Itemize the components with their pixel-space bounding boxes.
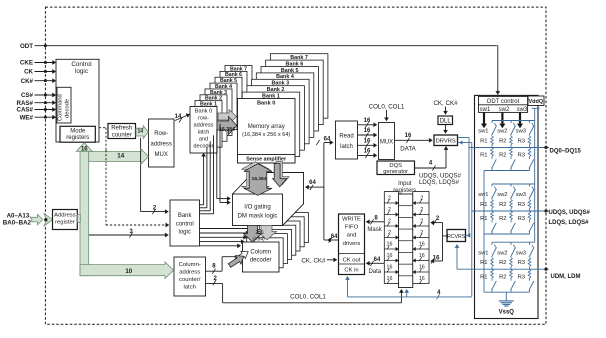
svg-text:UDM, LDM: UDM, LDM [551, 274, 581, 280]
wire ODT to ODT control [497, 46, 499, 92]
memory array bank stack (banks 7..1) [270, 54, 328, 119]
svg-text:and: and [347, 233, 357, 239]
svg-text:and: and [199, 137, 208, 143]
control logic box [56, 59, 99, 142]
svg-text:VssQ: VssQ [499, 309, 515, 315]
command decode box [57, 87, 71, 123]
wire RCVRS to input registers (2) [434, 222, 443, 224]
svg-text:Refresh: Refresh [111, 126, 132, 132]
column decoder front box [243, 242, 280, 272]
svg-text:R1: R1 [480, 153, 487, 159]
svg-text:CK in: CK in [344, 268, 358, 274]
svg-text:COL0, COL1: COL0, COL1 [369, 103, 405, 110]
svg-text:CAS#: CAS# [16, 107, 33, 114]
wire segments crossing green arrow (drawn on top) [140, 151, 142, 162]
svg-text:sw3: sw3 [516, 129, 526, 135]
svg-text:64: 64 [331, 234, 338, 240]
gray diagonal arrow into column decoder (shadow outline) [234, 248, 251, 263]
svg-text:sw3: sw3 [516, 192, 526, 198]
svg-text:register: register [55, 220, 75, 226]
svg-text:sw1: sw1 [478, 250, 488, 256]
svg-text:Command: Command [58, 94, 64, 121]
svg-text:BA0–BA2: BA0–BA2 [3, 219, 32, 226]
svg-text:LDQS, LDQS#: LDQS, LDQS# [419, 179, 460, 186]
gray double arrow 16,384 shadow [241, 162, 269, 194]
sense amplifier strip [238, 155, 296, 164]
blue wire DM pad line to RCVRS [456, 247, 458, 269]
svg-text:16: 16 [364, 128, 371, 134]
svg-text:16: 16 [387, 265, 393, 271]
svg-text:16,384: 16,384 [252, 176, 267, 182]
svg-text:16: 16 [81, 147, 88, 153]
svg-text:registers: registers [66, 135, 89, 141]
svg-text:Input: Input [398, 181, 412, 187]
svg-text:10: 10 [125, 268, 132, 275]
svg-text:sw2: sw2 [497, 192, 507, 198]
svg-text:Mask: Mask [367, 227, 382, 233]
svg-text:64: 64 [374, 257, 381, 263]
svg-text:R3: R3 [518, 260, 525, 266]
VddQ box [528, 96, 544, 106]
svg-text:14: 14 [138, 129, 144, 135]
svg-text:R2: R2 [499, 260, 506, 266]
gray 3d arrow 16,384 latch-to-memory [217, 117, 237, 135]
wire row-address MUX to row-address latch (14) [175, 115, 188, 121]
svg-text:Bank 0: Bank 0 [195, 109, 212, 115]
ODT switch/resistor column 2 [510, 184, 512, 187]
svg-text:VddQ: VddQ [528, 99, 543, 105]
ODT switch/resistor column 2 [510, 242, 512, 245]
svg-text:RCVRS: RCVRS [447, 234, 466, 240]
svg-text:logic: logic [75, 68, 88, 75]
svg-text:sw2: sw2 [497, 250, 507, 256]
svg-text:Control: Control [71, 61, 91, 68]
bank control logic box [170, 200, 200, 246]
svg-text:DLL: DLL [440, 118, 452, 124]
ODT switch/resistor column 2 [510, 121, 512, 124]
svg-text:latch: latch [183, 285, 195, 291]
gray double arrow 16,384 sense-amp to I/O gating [244, 164, 272, 196]
row-address MUX box [149, 119, 175, 167]
svg-text:MUX: MUX [380, 140, 393, 146]
svg-text:16: 16 [387, 242, 393, 248]
svg-text:256: 256 [255, 230, 264, 236]
svg-text:16: 16 [364, 139, 371, 145]
svg-text:CK out: CK out [343, 258, 361, 264]
svg-text:address: address [151, 142, 172, 148]
svg-text:ODT: ODT [20, 43, 33, 50]
svg-text:16: 16 [364, 118, 371, 124]
svg-text:DATA: DATA [400, 145, 416, 152]
svg-text:FIFO: FIFO [345, 224, 359, 230]
svg-text:16: 16 [364, 149, 371, 155]
green wide arrow 10 to column-address counter [80, 262, 174, 279]
I/O gating / DM mask logic 3D box [233, 173, 304, 226]
svg-text:Bank: Bank [178, 213, 193, 219]
dashed control wire from control logic [99, 127, 106, 129]
svg-text:CK#: CK# [21, 78, 34, 85]
DQS generator box [377, 161, 415, 175]
svg-text:sw1: sw1 [480, 107, 491, 113]
refresh counter box [108, 124, 136, 139]
DQ pad line [469, 147, 549, 149]
svg-text:drivers: drivers [343, 241, 361, 247]
wire DQS generator to DRVRS (4) [415, 167, 447, 169]
svg-text:CKE: CKE [20, 60, 33, 67]
ODT switch/resistor column 1 [491, 184, 493, 187]
green arrowhead 16 into mode registers [76, 143, 92, 152]
DLL box [445, 107, 447, 112]
svg-text:Column-: Column- [179, 262, 201, 268]
svg-text:R2: R2 [499, 216, 506, 222]
wire MUX to DRVRS 16 DATA [395, 139, 430, 141]
mode registers box [60, 126, 95, 142]
svg-text:CK, CK#: CK, CK# [433, 100, 458, 107]
ODT control box [479, 96, 528, 112]
outer dashed chip boundary [45, 7, 546, 324]
svg-text:16: 16 [419, 276, 425, 282]
ODT group rails [492, 120, 535, 122]
svg-text:DRVRS: DRVRS [436, 139, 456, 145]
svg-text:ODT control: ODT control [487, 99, 519, 105]
svg-text:WE#: WE# [20, 114, 34, 121]
ODT switch/resistor column 1 [491, 121, 493, 124]
ODT switch/resistor column 3 [529, 121, 531, 124]
svg-text:I/O gating: I/O gating [244, 204, 270, 211]
ODT switch/resistor column 1 [491, 242, 493, 245]
svg-text:LDQS, LDQS#: LDQS, LDQS# [549, 220, 590, 226]
svg-text:Column: Column [250, 250, 271, 256]
small gray arrow down (shadow) [275, 162, 289, 185]
blue net DRVRS to DQ pads and RCVRS [458, 137, 470, 139]
small gray arrow down [273, 164, 287, 187]
ground stem and VssQ symbol [505, 292, 507, 301]
svg-text:16: 16 [419, 265, 425, 271]
gray 3d arrow 16,384 latch-to-memory (shadow) [218, 110, 237, 124]
wire 2 column-address to COL0,COL1 bus [206, 283, 223, 285]
green address bus vertical band [80, 150, 89, 276]
svg-text:sw3: sw3 [517, 107, 528, 113]
svg-text:Mode: Mode [70, 128, 86, 134]
ODT switch/resistor column 3 [529, 242, 531, 245]
svg-text:UDQS, UDQS#: UDQS, UDQS# [549, 210, 591, 216]
left VssQ-side rail link [483, 171, 485, 293]
svg-text:CK, CK#: CK, CK# [301, 257, 326, 264]
DRVRS box [434, 135, 458, 146]
svg-text:(16,384 x 256 x 64): (16,384 x 256 x 64) [242, 132, 290, 138]
read latch box [336, 121, 358, 159]
wire DLL to DRVRS [445, 125, 447, 131]
input registers left capture column [384, 192, 398, 284]
svg-text:(x64): (x64) [253, 236, 265, 242]
svg-text:R3: R3 [518, 202, 525, 208]
svg-text:R2: R2 [499, 153, 506, 159]
wire 64 trunk (read/write data bus) [323, 143, 325, 241]
svg-text:decoder: decoder [250, 258, 272, 264]
svg-text:address: address [179, 270, 200, 276]
green arrow 14 refresh counter to MUX [136, 126, 148, 139]
wire address register to bank control logic (3) [89, 234, 166, 236]
blue net DRVRS DQS to pads and strobe bus [458, 142, 472, 144]
bank select wires to I/O gating [216, 130, 218, 199]
svg-text:sw1: sw1 [478, 192, 488, 198]
svg-text:MUX: MUX [155, 152, 168, 158]
svg-text:R3: R3 [518, 153, 525, 159]
svg-text:generator: generator [383, 169, 408, 175]
MUX box [379, 123, 395, 160]
ODT switch/resistor column 3 [529, 184, 531, 187]
svg-text:DQ0–DQ15: DQ0–DQ15 [550, 149, 582, 155]
svg-text:Address: Address [54, 213, 76, 219]
bold control arrows to switches [483, 113, 485, 124]
DM pad line [457, 268, 549, 270]
svg-text:Row-: Row- [154, 131, 168, 137]
svg-text:R2: R2 [499, 274, 506, 280]
svg-text:16: 16 [419, 242, 425, 248]
bank select wires to column decoders [200, 228, 250, 230]
svg-text:CS#: CS# [21, 92, 34, 99]
svg-text:sw2: sw2 [499, 107, 510, 113]
RCVRS box [443, 235, 448, 237]
svg-text:14: 14 [175, 114, 182, 120]
address register box [53, 210, 78, 230]
svg-text:logic: logic [179, 230, 191, 236]
svg-text:R2: R2 [499, 202, 506, 208]
svg-text:COL0, COL1: COL0, COL1 [290, 293, 326, 300]
COL0,COL1 bottom bus [223, 302, 402, 304]
input registers right capture column [413, 192, 429, 284]
gray diagonal arrow into column decoder [227, 252, 247, 270]
WRITE FIFO and drivers box [339, 214, 365, 275]
svg-text:decode: decode [64, 99, 70, 118]
svg-text:R1: R1 [480, 138, 487, 144]
svg-text:Memory array: Memory array [248, 124, 285, 130]
svg-text:16: 16 [419, 253, 425, 259]
ODT group rails [492, 241, 535, 243]
svg-text:counter/: counter/ [179, 277, 201, 283]
svg-text:DQS: DQS [389, 163, 402, 169]
svg-text:address: address [194, 123, 214, 129]
svg-text:14: 14 [117, 153, 124, 160]
green wide arrow 14 to row-address MUX [89, 149, 149, 164]
DQS pad line [472, 210, 549, 212]
svg-text:latch: latch [198, 130, 210, 136]
svg-text:WRITE: WRITE [342, 216, 361, 222]
svg-text:16: 16 [387, 253, 393, 259]
svg-text:sw1: sw1 [478, 129, 488, 135]
svg-text:decoder: decoder [193, 144, 213, 150]
svg-text:Bank 0: Bank 0 [257, 100, 275, 106]
bank select wires to row-address latches [200, 204, 204, 206]
wire 8 column-address to column decoder [206, 270, 223, 272]
bank 0 row-address latch and decoder box [190, 107, 217, 154]
memory array bank 0 box [238, 99, 296, 164]
svg-text:control: control [176, 222, 194, 228]
svg-text:16: 16 [387, 276, 393, 282]
svg-text:Read: Read [339, 133, 353, 139]
svg-text:row-: row- [198, 116, 209, 122]
svg-text:DM mask logic: DM mask logic [238, 213, 278, 220]
dashed control wire to bank control logic [105, 128, 107, 225]
wire RCVRS to input registers (16) [434, 260, 443, 262]
input registers center column [399, 194, 413, 288]
svg-text:sw3: sw3 [516, 250, 526, 256]
bank row-address latch and decoder stack (banks 7..1) [225, 66, 252, 113]
blue DQS strobe bus to CK in and input registers [347, 279, 349, 297]
svg-text:Data: Data [368, 269, 381, 275]
column decoder stack (behind) [272, 213, 309, 243]
wires read latch to MUX (4x16) [358, 124, 375, 126]
svg-text:CK: CK [24, 69, 33, 76]
gray arrow 256 (x64) to column decoder [244, 225, 262, 242]
svg-text:latch: latch [340, 144, 353, 150]
VddQ rail [532, 107, 540, 109]
wire 8 Mask to write FIFO [369, 221, 384, 223]
svg-text:counter: counter [112, 132, 132, 138]
svg-text:R3: R3 [518, 138, 525, 144]
svg-text:R3: R3 [518, 274, 525, 280]
column-address counter/latch box [174, 257, 206, 296]
gray arrow 256 (x64) to column decoder (shadow) [258, 225, 277, 239]
ODT group rails [492, 183, 535, 185]
svg-text:R2: R2 [499, 138, 506, 144]
ODT outer box [475, 95, 539, 318]
wire refresh counter to bank control logic (2) [140, 138, 142, 212]
svg-text:16,384: 16,384 [219, 127, 235, 133]
svg-text:R3: R3 [518, 216, 525, 222]
svg-text:64: 64 [324, 137, 331, 143]
svg-text:16: 16 [405, 133, 412, 139]
wire 64 Data to write FIFO [369, 262, 384, 264]
svg-text:sw2: sw2 [497, 129, 507, 135]
input arrow A0-A13/BA0-BA2 (green) [32, 215, 43, 225]
